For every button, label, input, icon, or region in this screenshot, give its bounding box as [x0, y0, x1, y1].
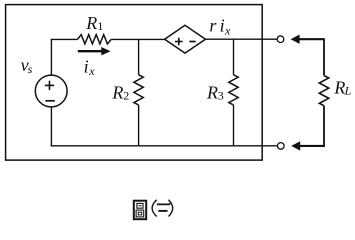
svg-text:x: x: [224, 23, 231, 37]
caption glyph TU inner top small box: [137, 203, 143, 208]
voltage source VS circle: [35, 75, 67, 107]
resistor R2 label: [111, 83, 129, 103]
caption glyph TU inner bottom box: [136, 210, 144, 217]
svg-text:R: R: [206, 83, 218, 103]
arrow into terminal a: [291, 35, 324, 44]
wire: R2 branch top: [138, 39, 140, 74]
svg-text:R: R: [85, 13, 97, 33]
resistor R2 zigzag: [134, 75, 143, 105]
node b terminal circle: [278, 143, 285, 150]
wire: RL branch bottom: [323, 106, 325, 147]
resistor R3 zigzag: [229, 75, 238, 105]
svg-text:r: r: [209, 16, 217, 36]
svg-text:L: L: [344, 83, 352, 97]
dependent source U1 diamond (CCVS r*ix): [165, 25, 206, 53]
wire: R2 branch bottom: [138, 105, 140, 147]
dependent source minus sign: [189, 41, 195, 43]
wire: top rail dependent source to terminal a: [206, 38, 277, 40]
resistor R3 label: [206, 83, 224, 103]
caption left parenthesis: [152, 200, 157, 217]
caption glyph TU inner top tick: [138, 205, 141, 207]
svg-text:1: 1: [97, 19, 103, 33]
caption glyph ER bottom stroke: [158, 210, 167, 212]
wire: R3 branch bottom: [233, 105, 235, 147]
svg-text:2: 2: [123, 89, 129, 103]
resistor R1 zigzag: [78, 35, 112, 44]
voltage source VS minus sign: [45, 100, 54, 102]
wire: bottom rail to terminal b: [51, 145, 278, 147]
caption glyph ER top stroke: [157, 203, 170, 204]
svg-text:i: i: [84, 56, 89, 76]
wire: top rail left segment to R1: [51, 38, 78, 40]
node a terminal circle: [277, 36, 284, 43]
svg-text:s: s: [28, 62, 33, 76]
current arrow ix: [78, 47, 111, 55]
voltage source VS label vs: [21, 55, 33, 76]
svg-text:x: x: [88, 64, 95, 78]
caption glyph TU inner bottom small box: [138, 212, 142, 215]
arrow into terminal b: [291, 141, 325, 150]
caption figure label 圖(二) drawn as strokes: [134, 200, 173, 219]
voltage source VS plus sign: [45, 81, 54, 90]
wire: R3 branch top: [233, 39, 235, 75]
svg-text:3: 3: [218, 89, 224, 103]
svg-text:R: R: [111, 83, 123, 103]
wire: VS top to top rail: [50, 39, 52, 75]
wire: VS bottom to bottom rail: [50, 107, 52, 147]
resistor R1 label: [85, 13, 103, 33]
current label ix: [84, 56, 96, 78]
caption glyph TU outer box: [134, 201, 146, 220]
resistor RL label: [333, 78, 351, 98]
wire: RL branch top: [323, 38, 325, 75]
dependent source value label r ix: [209, 16, 231, 38]
resistor RL zigzag: [319, 76, 328, 106]
wire: top rail R1 to dependent source: [111, 38, 164, 40]
svg-text:R: R: [333, 78, 345, 98]
caption right parenthesis: [169, 200, 173, 217]
outer box (network boundary): [6, 5, 263, 161]
dependent source plus sign: [175, 38, 183, 46]
svg-text:i: i: [220, 16, 225, 36]
